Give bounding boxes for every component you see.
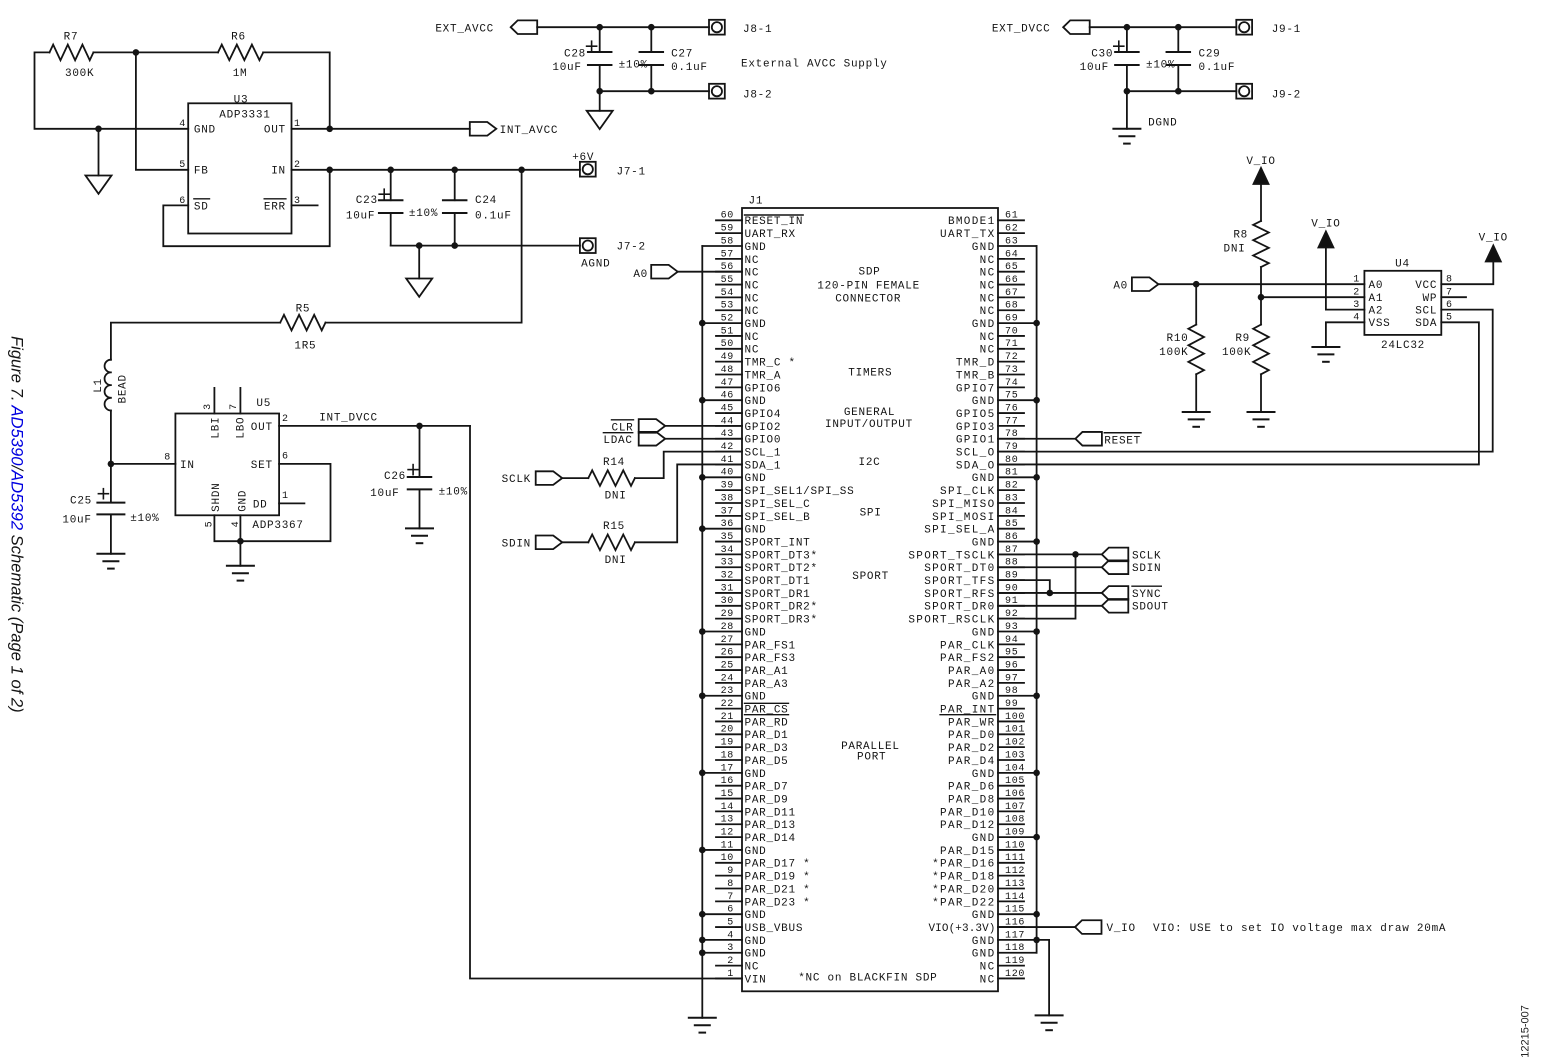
junction C23 tap: [387, 167, 394, 174]
junction R7/R6/FB: [133, 49, 140, 56]
svg-text:GND: GND: [237, 490, 249, 512]
wire U3 SD loop to IN net: [163, 170, 329, 246]
svg-text:62: 62: [1005, 224, 1018, 235]
junction right bus row 75: [1033, 397, 1040, 404]
svg-text:27: 27: [721, 635, 734, 646]
J1 pin 7 PAR_D23 *: [716, 892, 810, 910]
svg-text:30: 30: [721, 596, 734, 607]
wire right GND bus: [1036, 246, 1038, 953]
svg-text:5: 5: [179, 160, 186, 171]
svg-text:40: 40: [721, 468, 734, 479]
svg-text:SDA_1: SDA_1: [745, 460, 782, 472]
svg-text:51: 51: [721, 326, 734, 337]
svg-text:69: 69: [1005, 314, 1018, 325]
wire AVCC gnd rail to J8-2: [600, 90, 709, 92]
J1 pin 42 SCL_1: [716, 442, 781, 460]
wire GPIO1 pin 78 to RESET: [998, 438, 1075, 440]
svg-text:85: 85: [1005, 519, 1018, 530]
svg-text:PAR_D11: PAR_D11: [745, 807, 796, 819]
svg-text:SPORT_INT: SPORT_INT: [745, 537, 811, 549]
svg-text:54: 54: [721, 288, 734, 299]
wire SCL_O pin 79 to U4 SCL: [998, 310, 1493, 452]
J1 pin 31 SPORT_DR1: [716, 583, 810, 601]
wire R7-R6 junction to U3 FB: [93, 52, 218, 169]
svg-text:GND: GND: [972, 319, 996, 331]
J1 pin 64 NC: [980, 249, 1024, 267]
J1 pin 37 SPI_SEL_B: [716, 506, 810, 524]
J1 internal section labels: [798, 266, 937, 984]
J1 pin 28 GND: [702, 622, 766, 640]
svg-text:PAR_D2: PAR_D2: [948, 743, 996, 755]
ground below R9 (bars): [1248, 411, 1275, 413]
J1 pin 98 GND: [972, 686, 1037, 704]
wire SPORT_DR0 pin 91 to SDOUT: [998, 605, 1102, 607]
svg-text:SPI_SEL_A: SPI_SEL_A: [924, 525, 995, 537]
ground AGND (triangle): [86, 176, 112, 194]
svg-text:1M: 1M: [233, 68, 248, 80]
svg-text:71: 71: [1005, 339, 1018, 350]
svg-text:4: 4: [1353, 313, 1360, 324]
wire U5 OUT to INT_DVCC rail: [279, 425, 470, 427]
svg-text:SPORT_TSCLK: SPORT_TSCLK: [908, 550, 995, 562]
svg-text:84: 84: [1005, 506, 1018, 517]
svg-text:6: 6: [1446, 300, 1453, 311]
resistor R15 DNI: [588, 521, 635, 567]
svg-text:PAR_A3: PAR_A3: [745, 679, 789, 691]
resistor R7: [50, 31, 95, 80]
svg-text:GND: GND: [972, 537, 996, 549]
J1 pin 22 PAR_CS: [716, 699, 789, 717]
svg-text:GND: GND: [972, 396, 996, 408]
svg-text:EXT_AVCC: EXT_AVCC: [435, 23, 494, 35]
connector RESET: [1075, 432, 1141, 448]
svg-text:R9: R9: [1235, 333, 1250, 345]
svg-text:SDIN: SDIN: [1132, 563, 1161, 575]
svg-text:PAR_D23 *: PAR_D23 *: [745, 897, 811, 909]
svg-text:GND: GND: [972, 769, 996, 781]
ground AGND triangle below C23/C24: [406, 279, 432, 297]
J1 pin 93 GND: [972, 622, 1037, 640]
junction left bus row 28: [699, 628, 706, 635]
junction right bus row 69: [1033, 320, 1040, 327]
svg-text:SPI_CLK: SPI_CLK: [940, 486, 995, 498]
J1 pin 1 VIN: [716, 969, 767, 987]
svg-text:C26: C26: [384, 471, 406, 483]
ground below R10 (bars): [1183, 411, 1210, 413]
svg-text:38: 38: [721, 493, 734, 504]
svg-text:99: 99: [1005, 699, 1018, 710]
svg-text:GND: GND: [972, 627, 996, 639]
J1 pin 3 GND: [702, 943, 766, 961]
svg-text:R5: R5: [296, 303, 311, 315]
svg-text:82: 82: [1005, 481, 1018, 492]
svg-text:A1: A1: [1369, 293, 1384, 305]
junction at AGND tap: [95, 126, 102, 133]
svg-text:VSS: VSS: [1369, 318, 1391, 330]
svg-text:32: 32: [721, 571, 734, 582]
junction C26 tap: [416, 423, 423, 430]
junction IN node: [108, 461, 115, 468]
capacitor C30 10uF: [1080, 27, 1176, 91]
svg-text:GND: GND: [745, 910, 767, 922]
svg-text:GND: GND: [745, 769, 767, 781]
svg-text:120-PIN FEMALE: 120-PIN FEMALE: [817, 280, 920, 292]
wire to DGND: [1126, 91, 1128, 129]
wire SDIN to R15: [562, 541, 588, 543]
J1 pin 117 GND: [972, 930, 1037, 948]
svg-text:BMODE1: BMODE1: [948, 216, 996, 228]
svg-text:24: 24: [721, 673, 734, 684]
svg-text:WP: WP: [1423, 293, 1438, 305]
svg-text:2: 2: [1353, 288, 1360, 299]
wire SCLK to R14: [562, 477, 588, 479]
svg-text:SPORT_DR2*: SPORT_DR2*: [745, 602, 818, 614]
svg-text:8: 8: [164, 452, 171, 463]
svg-text:C30: C30: [1091, 49, 1113, 61]
J1 pin 24 PAR_A3: [716, 673, 789, 691]
svg-text:VCC: VCC: [1415, 280, 1437, 292]
svg-text:U3: U3: [234, 94, 249, 106]
capacitor C24 0.1uF: [443, 170, 512, 246]
J1 pin 56 NC: [716, 262, 759, 280]
svg-text:PAR_D21 *: PAR_D21 *: [745, 884, 811, 896]
svg-text:24LC32: 24LC32: [1381, 340, 1425, 352]
svg-text:20: 20: [721, 725, 734, 736]
svg-text:PAR_D8: PAR_D8: [948, 794, 996, 806]
J1 pin 9 PAR_D19 *: [716, 866, 810, 884]
J1 pin 72 TMR_D: [956, 352, 1024, 370]
connector CLR: [612, 419, 666, 434]
svg-text:7: 7: [727, 892, 734, 903]
J1 pin 88 SPORT_DT0: [924, 558, 1024, 576]
svg-text:23: 23: [721, 686, 734, 697]
svg-text:57: 57: [721, 249, 734, 260]
svg-text:3: 3: [203, 403, 214, 410]
J1 pin 106 PAR_D8: [948, 789, 1025, 807]
J1 pin 5 USB_VBUS: [716, 917, 803, 935]
svg-text:45: 45: [721, 403, 734, 414]
wire V_IO to U4 A2 pin 3: [1326, 248, 1365, 310]
svg-text:PAR_D13: PAR_D13: [745, 820, 796, 832]
svg-text:INPUT/OUTPUT: INPUT/OUTPUT: [825, 419, 913, 431]
wire left GND bus: [701, 246, 703, 1018]
svg-text:A0: A0: [1113, 280, 1128, 292]
svg-text:C24: C24: [475, 195, 497, 207]
power V_IO arrow (A2): [1311, 219, 1340, 248]
svg-text:TMR_A: TMR_A: [745, 370, 782, 382]
junction R6/OUT: [326, 126, 333, 133]
svg-text:*PAR_D22: *PAR_D22: [932, 897, 995, 909]
junction R10 tap: [1193, 281, 1200, 288]
svg-text:104: 104: [1005, 763, 1025, 774]
svg-text:1: 1: [1353, 275, 1360, 286]
svg-text:PAR_D0: PAR_D0: [948, 730, 996, 742]
svg-text:47: 47: [721, 378, 734, 389]
svg-text:VIO(+3.3V): VIO(+3.3V): [928, 923, 995, 935]
svg-text:29: 29: [721, 609, 734, 620]
J1 pin 118 GND: [972, 943, 1037, 961]
svg-text:3: 3: [727, 943, 734, 954]
power V_IO arrow (VCC): [1479, 233, 1508, 262]
connector SDIN input: [502, 536, 563, 551]
J1 pin 120 NC: [980, 969, 1025, 987]
svg-text:SDP: SDP: [859, 266, 881, 278]
J1 pin 11 GND: [702, 840, 766, 858]
wire R7 left to U3 GND: [35, 52, 189, 128]
svg-text:73: 73: [1005, 365, 1018, 376]
svg-text:94: 94: [1005, 635, 1018, 646]
svg-text:GENERAL: GENERAL: [844, 407, 895, 419]
svg-text:GND: GND: [745, 396, 767, 408]
J1 pin 90 SPORT_RFS: [924, 583, 1024, 601]
svg-text:SPI: SPI: [860, 507, 882, 519]
wire U4 VCC to V_IO: [1441, 262, 1493, 285]
svg-text:67: 67: [1005, 288, 1018, 299]
op-amp U3 ADP3331 regulator: [188, 94, 291, 233]
svg-text:4: 4: [179, 119, 186, 130]
svg-text:SDOUT: SDOUT: [1132, 602, 1169, 614]
junction C30 bottom: [1124, 88, 1131, 95]
svg-text:*PAR_D18: *PAR_D18: [932, 872, 995, 884]
svg-text:DNI: DNI: [605, 491, 627, 503]
svg-text:SPI_SEL_C: SPI_SEL_C: [745, 499, 811, 511]
svg-text:V_IO: V_IO: [1311, 219, 1340, 231]
J1 pin 6 GND: [702, 905, 766, 923]
svg-text:SCLK: SCLK: [1132, 550, 1161, 562]
J1 pin 101 PAR_D0: [948, 725, 1025, 743]
wire EXT_AVCC to J8-1: [537, 26, 709, 28]
svg-text:SHDN: SHDN: [211, 482, 223, 511]
wire R15 to SDA_1 pin 41: [635, 464, 742, 542]
svg-text:L1: L1: [93, 378, 105, 393]
svg-text:IN: IN: [271, 166, 286, 178]
J1 pin 107 PAR_D10: [940, 802, 1025, 820]
J1 pin 104 GND: [972, 763, 1037, 781]
svg-text:SCL_1: SCL_1: [745, 448, 782, 460]
svg-text:NC: NC: [980, 962, 996, 974]
svg-text:48: 48: [721, 365, 734, 376]
IC U4 24LC32 EEPROM: [1364, 258, 1441, 352]
connector SCLK output: [1102, 548, 1162, 563]
svg-text:10uF: 10uF: [1080, 62, 1109, 74]
svg-text:PAR_D7: PAR_D7: [745, 782, 789, 794]
junction right bus row 81: [1033, 474, 1040, 481]
svg-text:33: 33: [721, 558, 734, 569]
svg-text:111: 111: [1005, 853, 1025, 864]
J1 pin 99 PAR_INT: [940, 699, 1024, 717]
J1 pin 108 PAR_D12: [940, 815, 1025, 833]
svg-text:100K: 100K: [1222, 347, 1251, 359]
J1 pin 76 GPIO5: [956, 403, 1024, 421]
svg-text:TMR_B: TMR_B: [956, 370, 996, 382]
J1 pin 39 SPI_SEL1/SPI_SS: [716, 481, 854, 499]
J1 pin 47 GPIO6: [716, 378, 781, 396]
ground below J1 right (bars): [1036, 1014, 1063, 1016]
svg-text:105: 105: [1005, 776, 1025, 787]
svg-text:GPIO5: GPIO5: [956, 409, 996, 421]
svg-text:PAR_D17 *: PAR_D17 *: [745, 859, 811, 871]
wire to AGND triangle: [418, 246, 420, 279]
svg-text:15: 15: [721, 789, 734, 800]
svg-text:72: 72: [1005, 352, 1018, 363]
svg-text:12: 12: [721, 828, 734, 839]
J1 pin 67 NC: [980, 288, 1024, 306]
J1 pin 86 GND: [972, 532, 1037, 550]
capacitor C27 0.1uF: [640, 27, 708, 91]
svg-text:60: 60: [721, 211, 734, 222]
junction left bus row 6: [699, 911, 706, 918]
svg-text:5: 5: [1446, 313, 1453, 324]
J1 pin 85 SPI_SEL_A: [924, 519, 1024, 537]
svg-text:NC: NC: [980, 293, 996, 305]
svg-text:J9-1: J9-1: [1272, 24, 1301, 36]
svg-text:63: 63: [1005, 236, 1018, 247]
J1 pin 45 GPIO4: [716, 403, 781, 421]
J1 pin 100 PAR_WR: [948, 712, 1025, 730]
connector A0 (right, to U4): [1113, 277, 1158, 292]
junction C28 bottom: [596, 88, 603, 95]
svg-text:36: 36: [721, 519, 734, 530]
svg-text:GPIO4: GPIO4: [745, 409, 782, 421]
svg-text:±10%: ±10%: [439, 487, 468, 499]
junction U5 GND: [237, 538, 244, 545]
J1 pin 38 SPI_SEL_C: [716, 493, 810, 511]
svg-text:64: 64: [1005, 249, 1018, 260]
J1 pin 55 NC: [716, 275, 759, 293]
svg-text:PAR_WR: PAR_WR: [948, 717, 996, 729]
svg-text:77: 77: [1005, 416, 1018, 427]
svg-text:GND: GND: [745, 936, 767, 948]
svg-text:PAR_D4: PAR_D4: [948, 756, 996, 768]
junction C27 top: [648, 24, 655, 31]
svg-text:21: 21: [721, 712, 734, 723]
J1 pin 54 NC: [716, 288, 759, 306]
svg-text:112: 112: [1005, 866, 1025, 877]
J1 pin 102 PAR_D2: [948, 738, 1025, 756]
svg-text:VIO: USE to set IO voltage max: VIO: USE to set IO voltage max draw 20mA: [1153, 923, 1446, 935]
svg-text:PAR_D12: PAR_D12: [940, 820, 995, 832]
wire VIO pin 116 to V_IO flag: [998, 926, 1075, 928]
svg-text:75: 75: [1005, 391, 1018, 402]
J1 pin 73 TMR_B: [956, 365, 1024, 383]
wire SPORT_DT0 pin 88 to SDIN out: [998, 566, 1102, 568]
svg-text:GPIO7: GPIO7: [956, 383, 996, 395]
svg-text:SPORT_DR3*: SPORT_DR3*: [745, 615, 818, 627]
power V_IO arrow (R8): [1246, 156, 1275, 184]
svg-text:DGND: DGND: [1148, 118, 1177, 130]
J1 pin 83 SPI_MISO: [932, 493, 1024, 511]
svg-text:86: 86: [1005, 532, 1018, 543]
connector EXT_DVCC: [992, 20, 1090, 35]
svg-text:SET: SET: [251, 460, 273, 472]
svg-text:107: 107: [1005, 802, 1025, 813]
svg-text:GND: GND: [745, 525, 767, 537]
svg-text:GND: GND: [745, 627, 767, 639]
J1 pin 60 RESET_IN: [716, 211, 803, 229]
J1 pin 105 PAR_D6: [948, 776, 1025, 794]
svg-text:LBO: LBO: [236, 417, 248, 439]
svg-text:FB: FB: [194, 166, 209, 178]
svg-text:NC: NC: [980, 268, 996, 280]
svg-text:4: 4: [727, 930, 734, 941]
J1 pin 46 GND: [702, 391, 766, 409]
svg-text:J7-1: J7-1: [617, 167, 646, 179]
connector LDAC: [603, 432, 665, 447]
svg-text:NC: NC: [745, 293, 760, 305]
J1 pin 103 PAR_D4: [948, 750, 1025, 768]
ground below C25 (bars): [97, 553, 124, 555]
svg-text:AGND: AGND: [581, 259, 610, 271]
svg-text:31: 31: [721, 583, 734, 594]
svg-text:GND: GND: [745, 692, 767, 704]
svg-text:*PAR_D20: *PAR_D20: [932, 884, 995, 896]
svg-text:37: 37: [721, 506, 734, 517]
svg-text:LBI: LBI: [211, 417, 223, 439]
figure caption (rotated): [8, 336, 27, 713]
svg-text:NC: NC: [980, 345, 996, 357]
svg-text:C28: C28: [564, 49, 586, 61]
J1 pin 15 PAR_D9: [716, 789, 789, 807]
svg-text:SPORT_DT3*: SPORT_DT3*: [745, 550, 818, 562]
svg-text:100: 100: [1005, 712, 1025, 723]
connector EXT_AVCC: [435, 20, 537, 35]
wire +6V to R5 feed: [521, 170, 523, 323]
svg-text:10uF: 10uF: [370, 488, 399, 500]
svg-text:GND: GND: [745, 319, 767, 331]
resistor R5 1R5: [280, 303, 325, 352]
J1 pin 89 SPORT_TFS: [924, 571, 1024, 589]
J1 pin 62 UART_TX: [940, 224, 1024, 242]
J1 pin 52 GND: [702, 314, 766, 332]
J1 pin 78 GPIO1: [956, 429, 1024, 447]
junction RSCLK/TSCLK: [1072, 551, 1079, 558]
wire SDA_O pin 80 to U4 SDA: [998, 322, 1479, 464]
svg-text:R14: R14: [603, 457, 625, 469]
resistor R9 100K: [1222, 297, 1269, 412]
svg-text:8: 8: [727, 879, 734, 890]
svg-text:SCLK: SCLK: [502, 474, 531, 486]
U5 pin 3 stub (LBI): [213, 388, 215, 414]
J1 pin 50 NC: [716, 339, 759, 357]
svg-text:RESET: RESET: [1104, 436, 1141, 448]
J1 pin 74 GPIO7: [956, 378, 1024, 396]
svg-text:SPORT_DT0: SPORT_DT0: [924, 563, 995, 575]
svg-text:1: 1: [727, 969, 734, 980]
svg-text:PAR_FS3: PAR_FS3: [745, 653, 796, 665]
wire R5 left to L1: [111, 323, 280, 360]
J1 pin 75 GND: [972, 391, 1037, 409]
svg-text:PAR_D5: PAR_D5: [745, 756, 789, 768]
svg-text:NC: NC: [980, 306, 996, 318]
svg-text:OUT: OUT: [264, 125, 286, 137]
svg-text:Figure 7. AD5390/AD5392 Schema: Figure 7. AD5390/AD5392 Schematic (Page …: [8, 336, 27, 713]
J1 pin 61 BMODE1: [948, 211, 1024, 229]
svg-text:J8-1: J8-1: [743, 24, 772, 36]
wire to AVCC triangle ground: [599, 91, 601, 111]
ground below U5 (bars): [227, 565, 254, 567]
junction AGND triangle tap: [416, 242, 423, 249]
svg-text:PORT: PORT: [857, 751, 886, 763]
J1 pin 13 PAR_D13: [716, 815, 796, 833]
ground DGND (bars): [1113, 118, 1177, 144]
J1 pin 96 PAR_A0: [948, 660, 1024, 678]
svg-text:PAR_D9: PAR_D9: [745, 794, 789, 806]
svg-text:300K: 300K: [65, 68, 94, 80]
svg-text:RESET_IN: RESET_IN: [745, 216, 804, 228]
svg-text:GPIO6: GPIO6: [745, 383, 782, 395]
wire R6 right to OUT net: [263, 52, 330, 128]
svg-text:10uF: 10uF: [62, 514, 91, 526]
